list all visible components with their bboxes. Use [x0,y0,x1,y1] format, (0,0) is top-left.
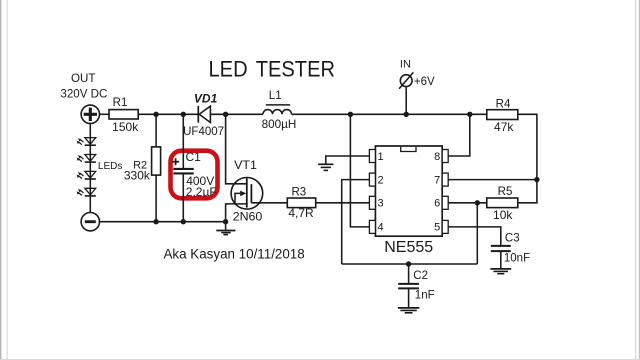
svg-text:320V DC: 320V DC [60,88,107,101]
pin 8 box [442,150,448,163]
svg-text:VD1: VD1 [194,91,218,105]
ground C2 [398,308,419,313]
ground pin 1 [318,164,333,170]
capacitor C3 [491,246,511,268]
wire OUT+ to R1 [100,113,110,115]
node source/ground junction [223,219,228,224]
op IC U1 NE555 body [375,146,442,236]
ground VT1 source [216,222,235,235]
pin 7 box [442,173,448,186]
svg-text:8: 8 [434,151,440,163]
capacitor C1 [173,114,193,221]
wire VD1 anode to L1 [210,113,263,115]
svg-text:R5: R5 [498,186,513,198]
svg-text:47k: 47k [494,120,514,134]
inductor L1 [263,105,292,114]
svg-text:R3: R3 [291,187,306,199]
svg-text:1: 1 [378,151,384,163]
svg-text:7: 7 [434,174,440,186]
highlight box around C1 [171,151,218,199]
svg-text:IN: IN [400,58,411,70]
pin 4 box [369,220,375,233]
LED D1 [77,138,96,146]
node pin8 junction [467,112,472,117]
resistor R1 [109,110,138,119]
polarity + of C1 [172,161,179,163]
svg-text:1nF: 1nF [415,289,435,301]
wire R4 to R5 junction [518,114,537,179]
wire L1 to R4 [292,113,487,115]
svg-text:R1: R1 [113,97,128,109]
svg-text:LEDs: LEDs [98,161,122,172]
svg-text:NE555: NE555 [384,239,433,256]
resistor R5 [487,198,518,208]
svg-text:L1: L1 [269,90,282,102]
svg-text:2N60: 2N60 [233,210,263,224]
node R2 bottom junction [153,219,158,224]
wire pin 2 to rail [342,180,370,264]
terminal IN [399,72,413,114]
LED D4 [77,188,96,196]
node IN junction [404,112,409,117]
svg-text:3: 3 [378,198,384,210]
node C2 junction [406,261,411,266]
pin 5 box [442,220,448,233]
wire pin 8 to Vcc bus [448,114,470,156]
transistor VT1 [226,114,263,221]
wire junction to R5 [518,180,537,203]
node C1 top junction [181,112,186,117]
svg-text:10k: 10k [493,208,513,222]
wire R1 to VD1 cathode [138,113,197,115]
svg-text:C1: C1 [186,150,202,164]
ground C3 [490,269,511,274]
pin 6 box [442,196,448,209]
node drain junction [223,112,228,117]
svg-text:4: 4 [378,222,384,234]
svg-text:C3: C3 [505,233,520,245]
svg-text:Aka Kasyan 10/11/2018: Aka Kasyan 10/11/2018 [164,247,305,262]
LED D2 [77,155,96,163]
wire pin 6 junction down to rail [476,203,478,264]
svg-text:2: 2 [378,174,384,186]
svg-text:2,2µF: 2,2µF [186,185,217,199]
svg-text:LED TESTER: LED TESTER [209,57,336,82]
wire pin 7 to junction [448,179,537,181]
svg-text:UF4007: UF4007 [183,126,224,138]
svg-text:6: 6 [434,198,440,210]
wire pin 3 to R3 [316,202,370,204]
svg-text:330k: 330k [124,169,151,183]
resistor R2 [152,114,161,221]
svg-text:800µH: 800µH [262,118,297,131]
pin 1 box [369,150,375,163]
wire pin 5 to C3 [448,227,501,245]
wire bottom bus OUT- to source [100,221,226,223]
wire LED chain [89,124,91,213]
svg-text:5: 5 [434,222,440,234]
svg-text:+6V: +6V [414,76,435,88]
capacitor C2 [398,264,419,307]
svg-text:4,7R: 4,7R [288,206,314,220]
pin 3 box [369,196,375,209]
pin 2 box [369,173,375,186]
svg-text:C2: C2 [413,270,428,282]
svg-text:150k: 150k [112,120,139,134]
wire R3 to gate [251,202,287,204]
terminal OUT+ [81,105,99,123]
svg-text:10nF: 10nF [504,253,530,265]
node R2 top junction [153,112,158,117]
resistor R3 [287,198,315,208]
LED D3 [77,171,96,179]
node pin6/R5 junction [475,200,480,205]
svg-text:OUT: OUT [71,72,95,85]
svg-text:VT1: VT1 [234,158,257,172]
terminal OUT- [81,213,99,231]
svg-text:R4: R4 [496,99,511,111]
wire R5 to pin 6 [448,202,487,204]
resistor R4 [487,110,518,120]
diode VD1 [198,106,210,123]
wire rail pins 2-6 tie [342,263,478,265]
node C1 bottom junction [181,219,186,224]
node R4/R5/pin7 junction [534,177,539,182]
notch [401,147,416,152]
wire pin 1 to ground [326,156,370,164]
wire pin 4 to Vcc bus [350,114,369,227]
node pin 4 Vcc junction [348,112,353,117]
